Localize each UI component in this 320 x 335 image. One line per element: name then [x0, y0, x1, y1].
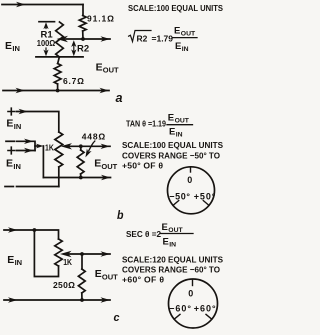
svg-text:6.7Ω: 6.7Ω: [63, 76, 84, 86]
label E_IN (circuit c): [7, 254, 22, 267]
dial face (c): [169, 279, 218, 328]
svg-text:448Ω: 448Ω: [82, 132, 106, 142]
wiper arrowhead into R1: [57, 36, 69, 42]
wire: top rail drop to 91.1 ohm: [82, 5, 84, 16]
svg-text:=1.79: =1.79: [152, 33, 174, 43]
arrowhead: E_OUT upper (circuit a): [101, 36, 111, 41]
svg-text:91.1Ω: 91.1Ω: [87, 13, 114, 23]
label a (circuit designator): [116, 90, 123, 105]
dimension arrow down for R1: [45, 48, 47, 52]
svg-text:SCALE:100 EQUAL UNITS: SCALE:100 EQUAL UNITS: [128, 3, 223, 13]
svg-text:+60° OF θ: +60° OF θ: [122, 274, 164, 284]
svg-text:250Ω: 250Ω: [53, 280, 75, 290]
svg-text:0: 0: [187, 175, 192, 185]
label E_OUT (circuit b): [94, 158, 117, 171]
svg-text:E: E: [94, 158, 101, 170]
note: COVERS RANGE -50° TO (b): [122, 150, 220, 160]
formula text R2 = 1.79: [137, 33, 174, 43]
svg-text:OUT: OUT: [101, 162, 117, 171]
note: SCALE:100 EQUAL UNITS (circuit a): [128, 3, 223, 13]
svg-text:R2: R2: [77, 44, 89, 55]
label 100Ω value: [37, 38, 56, 48]
svg-text:1K: 1K: [45, 143, 54, 152]
label b (circuit designator): [117, 208, 124, 222]
dial c top tick: [192, 279, 194, 285]
resistor 91.1Ω: [79, 16, 86, 40]
potentiometer 1K (c): [55, 239, 62, 266]
node: junction of 91.1Ω and wiper: [81, 37, 85, 41]
arrowhead on b minus input: [24, 139, 34, 144]
dial b top tick: [190, 167, 192, 172]
arrowhead on bottom rail left: [16, 88, 26, 93]
label E_IN (circuit a): [5, 40, 20, 53]
dial c label 0: [188, 289, 193, 299]
svg-text:E: E: [169, 127, 175, 138]
label E_OUT (circuit c): [95, 268, 118, 281]
dial b label -50°: [169, 192, 190, 202]
svg-text:R2: R2: [137, 33, 148, 43]
svg-text:0: 0: [188, 289, 193, 299]
resistor 448Ω: [77, 146, 84, 177]
svg-text:c: c: [114, 312, 120, 324]
fraction EOUT over EIN (circuit c): [162, 222, 184, 234]
label 1K (c): [63, 258, 72, 267]
node: wiper to 448Ω top: [79, 144, 83, 148]
label E_IN (b lower): [6, 158, 21, 171]
svg-text:OUT: OUT: [103, 66, 119, 75]
svg-text:1K: 1K: [63, 258, 72, 267]
wire: circuit c bottom rail: [4, 299, 110, 301]
adjuster arrow into 448Ω: [89, 141, 95, 151]
dimension arrow up for R1: [45, 26, 47, 29]
svg-text:+50° OF θ: +50° OF θ: [122, 160, 163, 170]
dimension bar: top of R1 span: [39, 21, 55, 23]
label c (circuit designator): [114, 312, 120, 324]
dial c lower-right tick: [206, 314, 212, 319]
dimension bar: bottom of R1/R2 span: [36, 56, 83, 58]
svg-text:IN: IN: [182, 46, 189, 53]
arrowhead: E_OUT lower (circuit b): [101, 175, 111, 180]
svg-text:SCALE:120 EQUAL UNITS: SCALE:120 EQUAL UNITS: [122, 254, 223, 264]
svg-text:E: E: [175, 41, 181, 52]
svg-text:−50°: −50°: [169, 192, 190, 202]
svg-text:b: b: [117, 208, 124, 222]
dial c lower-left tick: [174, 314, 180, 319]
label R1: [41, 29, 54, 40]
wire: + input 2 to merge bar: [17, 150, 36, 152]
wire: circuit b bottom rail: [43, 177, 110, 179]
formula: SEC θ = 2 EOUT/EIN: [126, 229, 161, 239]
wiper arrowhead into 1K pot (c): [60, 251, 72, 257]
node: 6.7Ω to bottom rail: [56, 89, 60, 93]
label 250Ω value: [53, 280, 75, 290]
arrowhead on c bottom rail left: [8, 297, 18, 302]
wire: + input to 1K pot top: [17, 112, 59, 133]
arrowhead: E_OUT upper (circuit b): [101, 144, 111, 149]
dimension arrows R2 (wiper node to bottom): [73, 43, 75, 53]
wiper arrowhead into 1K pot (b): [61, 143, 73, 149]
note: SCALE:100 EQUAL UNITS (b): [122, 140, 223, 150]
arrowhead: bottom rail end (circuit c): [101, 297, 111, 302]
note: COVERS RANGE -60° TO (c): [122, 264, 220, 274]
svg-text:E: E: [7, 254, 14, 266]
minus terminal (b input 1): [6, 140, 14, 142]
dial b label +50°: [194, 192, 216, 202]
dial face (b): [168, 167, 215, 214]
label 91.1Ω value: [87, 13, 114, 23]
merged input arrow to dropper wire: [35, 145, 38, 147]
wire: circuit a bottom rail: [3, 90, 109, 92]
svg-text:E: E: [162, 222, 168, 233]
resistor 6.7Ω: [54, 64, 61, 91]
node: wiper to 250Ω (c): [80, 252, 84, 256]
formula: TAN θ = 1.19 EOUT/EIN: [126, 119, 166, 129]
svg-text:E: E: [95, 268, 102, 280]
node: 448Ω bottom to rail: [79, 176, 83, 180]
wire: bottom minus input to pot bottom: [17, 186, 59, 188]
svg-text:E: E: [6, 158, 13, 170]
fraction EOUT over EIN (circuit b): [168, 112, 190, 124]
svg-text:IN: IN: [176, 132, 183, 139]
potentiometer R1 100Ω: [56, 22, 64, 57]
dial b lower-right tick: [203, 201, 209, 206]
resistor 250Ω: [78, 254, 85, 300]
arrowhead on c top rail: [8, 227, 18, 232]
formula: sqrt(R2)=1.79 EOUT/EIN : radical sign: [129, 31, 151, 42]
node: 250Ω bottom to rail (c): [80, 298, 84, 302]
svg-text:IN: IN: [169, 242, 176, 249]
plus terminal (b input 2): [8, 147, 15, 154]
note: SCALE:120 EQUAL UNITS (c): [122, 254, 223, 264]
note: +60° OF θ (c): [122, 274, 164, 284]
svg-text:−60°: −60°: [169, 304, 191, 314]
wire: dropper to bottom rail (b): [42, 146, 44, 178]
dial b label 0: [187, 175, 192, 185]
dial b lower-left tick: [173, 201, 179, 206]
svg-text:TAN θ =1.19: TAN θ =1.19: [126, 119, 166, 129]
wire: loop tying both ends of 1K pot (c): [34, 230, 58, 277]
fraction EOUT over EIN (circuit a): [174, 25, 196, 37]
label E_OUT (circuit a): [96, 61, 119, 74]
svg-text:SCALE:100 EQUAL UNITS: SCALE:100 EQUAL UNITS: [122, 140, 223, 150]
svg-text:a: a: [116, 90, 123, 105]
svg-text:E: E: [174, 25, 180, 36]
label R2: [77, 44, 89, 55]
arrowhead on b plus input 2: [24, 148, 34, 153]
wire: 1K wiper to 448Ω node: [68, 145, 110, 147]
arrowhead: bottom rail end (circuit a): [100, 88, 110, 93]
wire: circuit a top rail E_IN+: [2, 4, 83, 6]
svg-text:OUT: OUT: [181, 31, 196, 38]
svg-text:OUT: OUT: [102, 273, 118, 282]
note: +50° OF θ (b): [122, 160, 163, 170]
wire: R1 wiper to output node: [66, 38, 110, 40]
potentiometer 1K (b): [55, 132, 63, 187]
label 448Ω value: [82, 132, 106, 142]
arrowhead on circuit a top rail: [16, 2, 26, 7]
svg-text:100Ω: 100Ω: [37, 38, 56, 48]
wire: pot bottom to 6.7Ω: [58, 57, 60, 64]
dial c label +60°: [194, 304, 216, 314]
svg-text:IN: IN: [15, 258, 23, 267]
arrowhead on b top input: [19, 109, 29, 114]
svg-text:+50°: +50°: [194, 192, 216, 202]
svg-text:SEC θ =2: SEC θ =2: [126, 229, 161, 239]
dial c label -60°: [169, 304, 191, 314]
svg-text:E: E: [6, 118, 13, 130]
svg-text:+60°: +60°: [194, 304, 216, 314]
plus terminal (b input 1): [8, 108, 15, 115]
svg-text:E: E: [96, 61, 103, 73]
wire: circuit c top rail E_IN: [4, 230, 59, 239]
label 6.7Ω value: [63, 76, 84, 86]
wire: - input to merge bar: [17, 141, 36, 150]
svg-text:COVERS RANGE −50° TO: COVERS RANGE −50° TO: [122, 150, 220, 160]
svg-text:OUT: OUT: [175, 117, 190, 124]
node: top rail to loop-back (c): [33, 228, 37, 232]
arrowhead: E_OUT upper (circuit c): [101, 251, 111, 256]
svg-text:E: E: [163, 237, 169, 248]
svg-text:COVERS RANGE −60° TO: COVERS RANGE −60° TO: [122, 264, 220, 274]
svg-text:IN: IN: [13, 162, 21, 171]
svg-text:IN: IN: [12, 44, 20, 53]
svg-text:E: E: [168, 112, 174, 123]
wire: 1K wiper (c) to 250Ω node: [68, 253, 110, 255]
label 1K (b): [45, 143, 54, 152]
svg-text:IN: IN: [14, 122, 21, 131]
svg-text:E: E: [5, 40, 12, 52]
label E_IN (b upper): [6, 118, 21, 131]
minus terminal (b input 2): [5, 186, 13, 188]
